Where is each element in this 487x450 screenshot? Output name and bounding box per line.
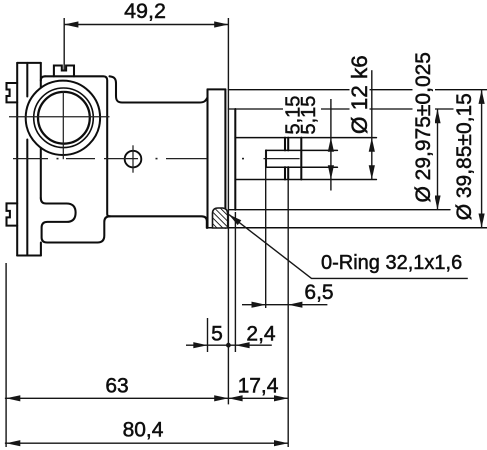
svg-text:Ø 29,975±0,025: Ø 29,975±0,025 xyxy=(412,52,435,202)
svg-text:Ø 12 k6: Ø 12 k6 xyxy=(347,55,372,134)
svg-text:49,2: 49,2 xyxy=(124,0,166,23)
svg-text:Ø 39,85±0,15: Ø 39,85±0,15 xyxy=(453,93,476,220)
svg-text:6,5: 6,5 xyxy=(304,281,333,304)
svg-text:5: 5 xyxy=(211,323,223,346)
svg-text:80,4: 80,4 xyxy=(123,419,164,442)
svg-text:17,4: 17,4 xyxy=(238,375,279,398)
svg-text:0-Ring 32,1x1,6: 0-Ring 32,1x1,6 xyxy=(321,252,462,274)
svg-text:5,15: 5,15 xyxy=(298,96,320,135)
svg-text:63: 63 xyxy=(105,375,128,398)
svg-text:2,4: 2,4 xyxy=(246,323,276,346)
